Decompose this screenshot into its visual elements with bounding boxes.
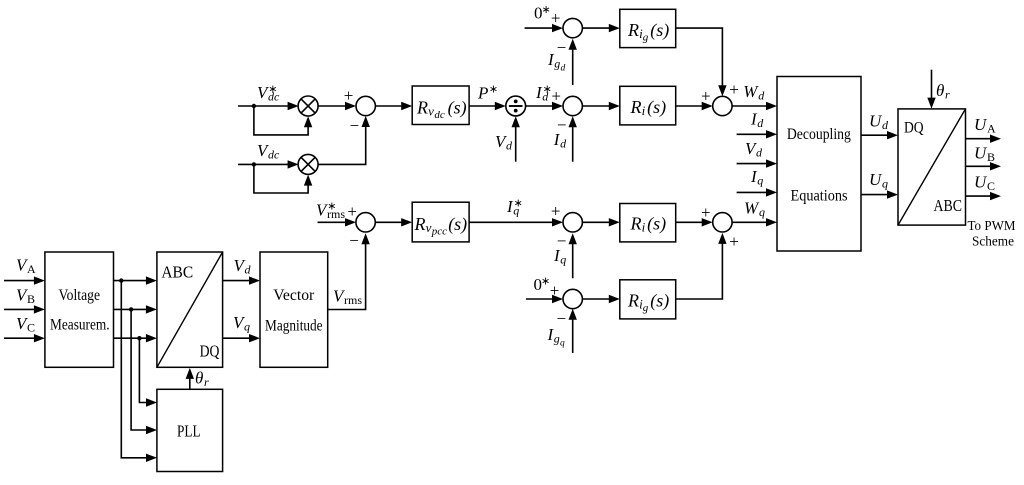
- svg-text:∗: ∗: [489, 84, 498, 96]
- svg-text:q: q: [560, 338, 565, 348]
- svg-text:−: −: [349, 231, 359, 250]
- svg-text:U: U: [974, 143, 988, 162]
- svg-text:Magnitude: Magnitude: [265, 317, 323, 334]
- svg-text:d: d: [542, 90, 549, 104]
- svg-text:d: d: [882, 118, 889, 132]
- svg-text:Voltage: Voltage: [59, 287, 101, 304]
- svg-text:i: i: [642, 103, 646, 118]
- svg-text:g: g: [554, 331, 560, 345]
- svg-text:Measurem.: Measurem.: [50, 316, 110, 333]
- svg-text:+: +: [729, 232, 739, 251]
- svg-text:v: v: [426, 220, 432, 235]
- svg-text:R: R: [414, 214, 426, 234]
- svg-text:P: P: [477, 83, 488, 102]
- svg-text:q: q: [759, 205, 765, 219]
- svg-text:pcc: pcc: [431, 225, 447, 237]
- svg-text:W: W: [743, 82, 759, 101]
- svg-text:W: W: [744, 198, 760, 217]
- svg-text:d: d: [561, 64, 566, 74]
- svg-text:+: +: [701, 86, 711, 105]
- svg-text:dc: dc: [434, 109, 445, 121]
- svg-text:(s): (s): [448, 98, 467, 119]
- svg-text:(s): (s): [650, 291, 669, 312]
- svg-text:d: d: [560, 137, 567, 151]
- svg-text:d: d: [245, 263, 252, 277]
- svg-text:U: U: [869, 170, 883, 189]
- svg-text:∗: ∗: [542, 4, 551, 16]
- svg-text:ABC: ABC: [934, 196, 963, 215]
- svg-text:C: C: [987, 179, 995, 193]
- svg-text:d: d: [758, 89, 765, 103]
- svg-text:DQ: DQ: [200, 341, 220, 360]
- svg-text:R: R: [630, 214, 642, 234]
- svg-text:−: −: [557, 38, 567, 57]
- svg-text:d: d: [757, 116, 764, 130]
- svg-text:(s): (s): [647, 97, 666, 118]
- svg-text:+: +: [347, 202, 357, 221]
- svg-text:q: q: [244, 320, 250, 334]
- svg-text:(s): (s): [448, 214, 467, 235]
- svg-text:(s): (s): [650, 20, 669, 41]
- svg-text:g: g: [643, 31, 649, 43]
- svg-text:(s): (s): [647, 214, 666, 235]
- svg-text:g: g: [554, 57, 560, 71]
- svg-text:R: R: [630, 97, 642, 117]
- svg-text:−: −: [350, 116, 360, 135]
- svg-text:dc: dc: [268, 90, 280, 104]
- svg-text:R: R: [416, 98, 428, 118]
- svg-text:q: q: [513, 204, 519, 218]
- svg-text:−: −: [557, 309, 567, 328]
- svg-text:d: d: [506, 139, 513, 153]
- svg-text:+: +: [701, 203, 711, 222]
- svg-text:rms: rms: [327, 207, 345, 221]
- svg-text:r: r: [204, 375, 209, 389]
- svg-text:A: A: [987, 122, 996, 136]
- svg-text:B: B: [27, 292, 35, 306]
- svg-text:+: +: [551, 202, 561, 221]
- svg-text:g: g: [643, 302, 649, 314]
- svg-text:i: i: [642, 220, 646, 235]
- svg-text:A: A: [27, 262, 36, 276]
- svg-text:DQ: DQ: [904, 120, 924, 137]
- svg-text:Equations: Equations: [791, 188, 848, 205]
- svg-text:q: q: [560, 252, 566, 266]
- svg-text:dc: dc: [268, 148, 280, 162]
- svg-text:PLL: PLL: [177, 421, 201, 440]
- svg-text:R: R: [627, 20, 639, 40]
- svg-text:To PWM: To PWM: [968, 219, 1017, 234]
- svg-text:C: C: [27, 321, 35, 335]
- svg-text:r: r: [945, 88, 950, 102]
- svg-text:q: q: [882, 176, 888, 190]
- svg-text:+: +: [551, 8, 561, 27]
- svg-text:θ: θ: [195, 368, 203, 387]
- svg-text:+: +: [550, 281, 560, 300]
- svg-text:+: +: [729, 80, 739, 99]
- svg-text:θ: θ: [936, 81, 944, 100]
- svg-text:rms: rms: [344, 293, 362, 307]
- svg-text:d: d: [756, 146, 763, 160]
- svg-text:U: U: [974, 172, 988, 191]
- svg-text:U: U: [869, 112, 883, 131]
- svg-text:U: U: [974, 115, 988, 134]
- svg-text:R: R: [627, 291, 639, 311]
- svg-text:q: q: [757, 174, 763, 188]
- svg-text:ABC: ABC: [161, 263, 193, 282]
- svg-text:Vector: Vector: [273, 287, 315, 304]
- svg-text:+: +: [344, 86, 354, 105]
- svg-text:v: v: [428, 104, 434, 119]
- svg-text:Scheme: Scheme: [972, 235, 1014, 250]
- svg-text:Decoupling: Decoupling: [787, 126, 851, 143]
- svg-text:B: B: [987, 150, 995, 164]
- svg-text:+: +: [551, 86, 561, 105]
